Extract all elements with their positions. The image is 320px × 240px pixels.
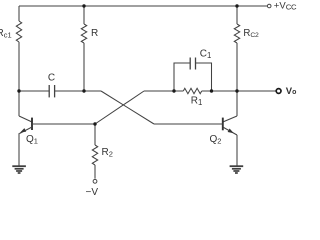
svg-text:Rc1: Rc1 [0,28,12,40]
svg-text:Q2: Q2 [210,134,222,146]
svg-text:R1: R1 [191,96,203,107]
svg-text:C: C [48,73,55,84]
svg-text:Q1: Q1 [26,134,38,146]
svg-text:−V: −V [86,187,99,198]
svg-text:+VCC: +VCC [274,0,297,11]
svg-text:Vo: Vo [286,86,297,97]
svg-text:R2: R2 [102,147,113,159]
svg-text:R: R [91,28,98,39]
svg-text:C1: C1 [200,49,212,60]
svg-text:RC2: RC2 [243,28,259,39]
